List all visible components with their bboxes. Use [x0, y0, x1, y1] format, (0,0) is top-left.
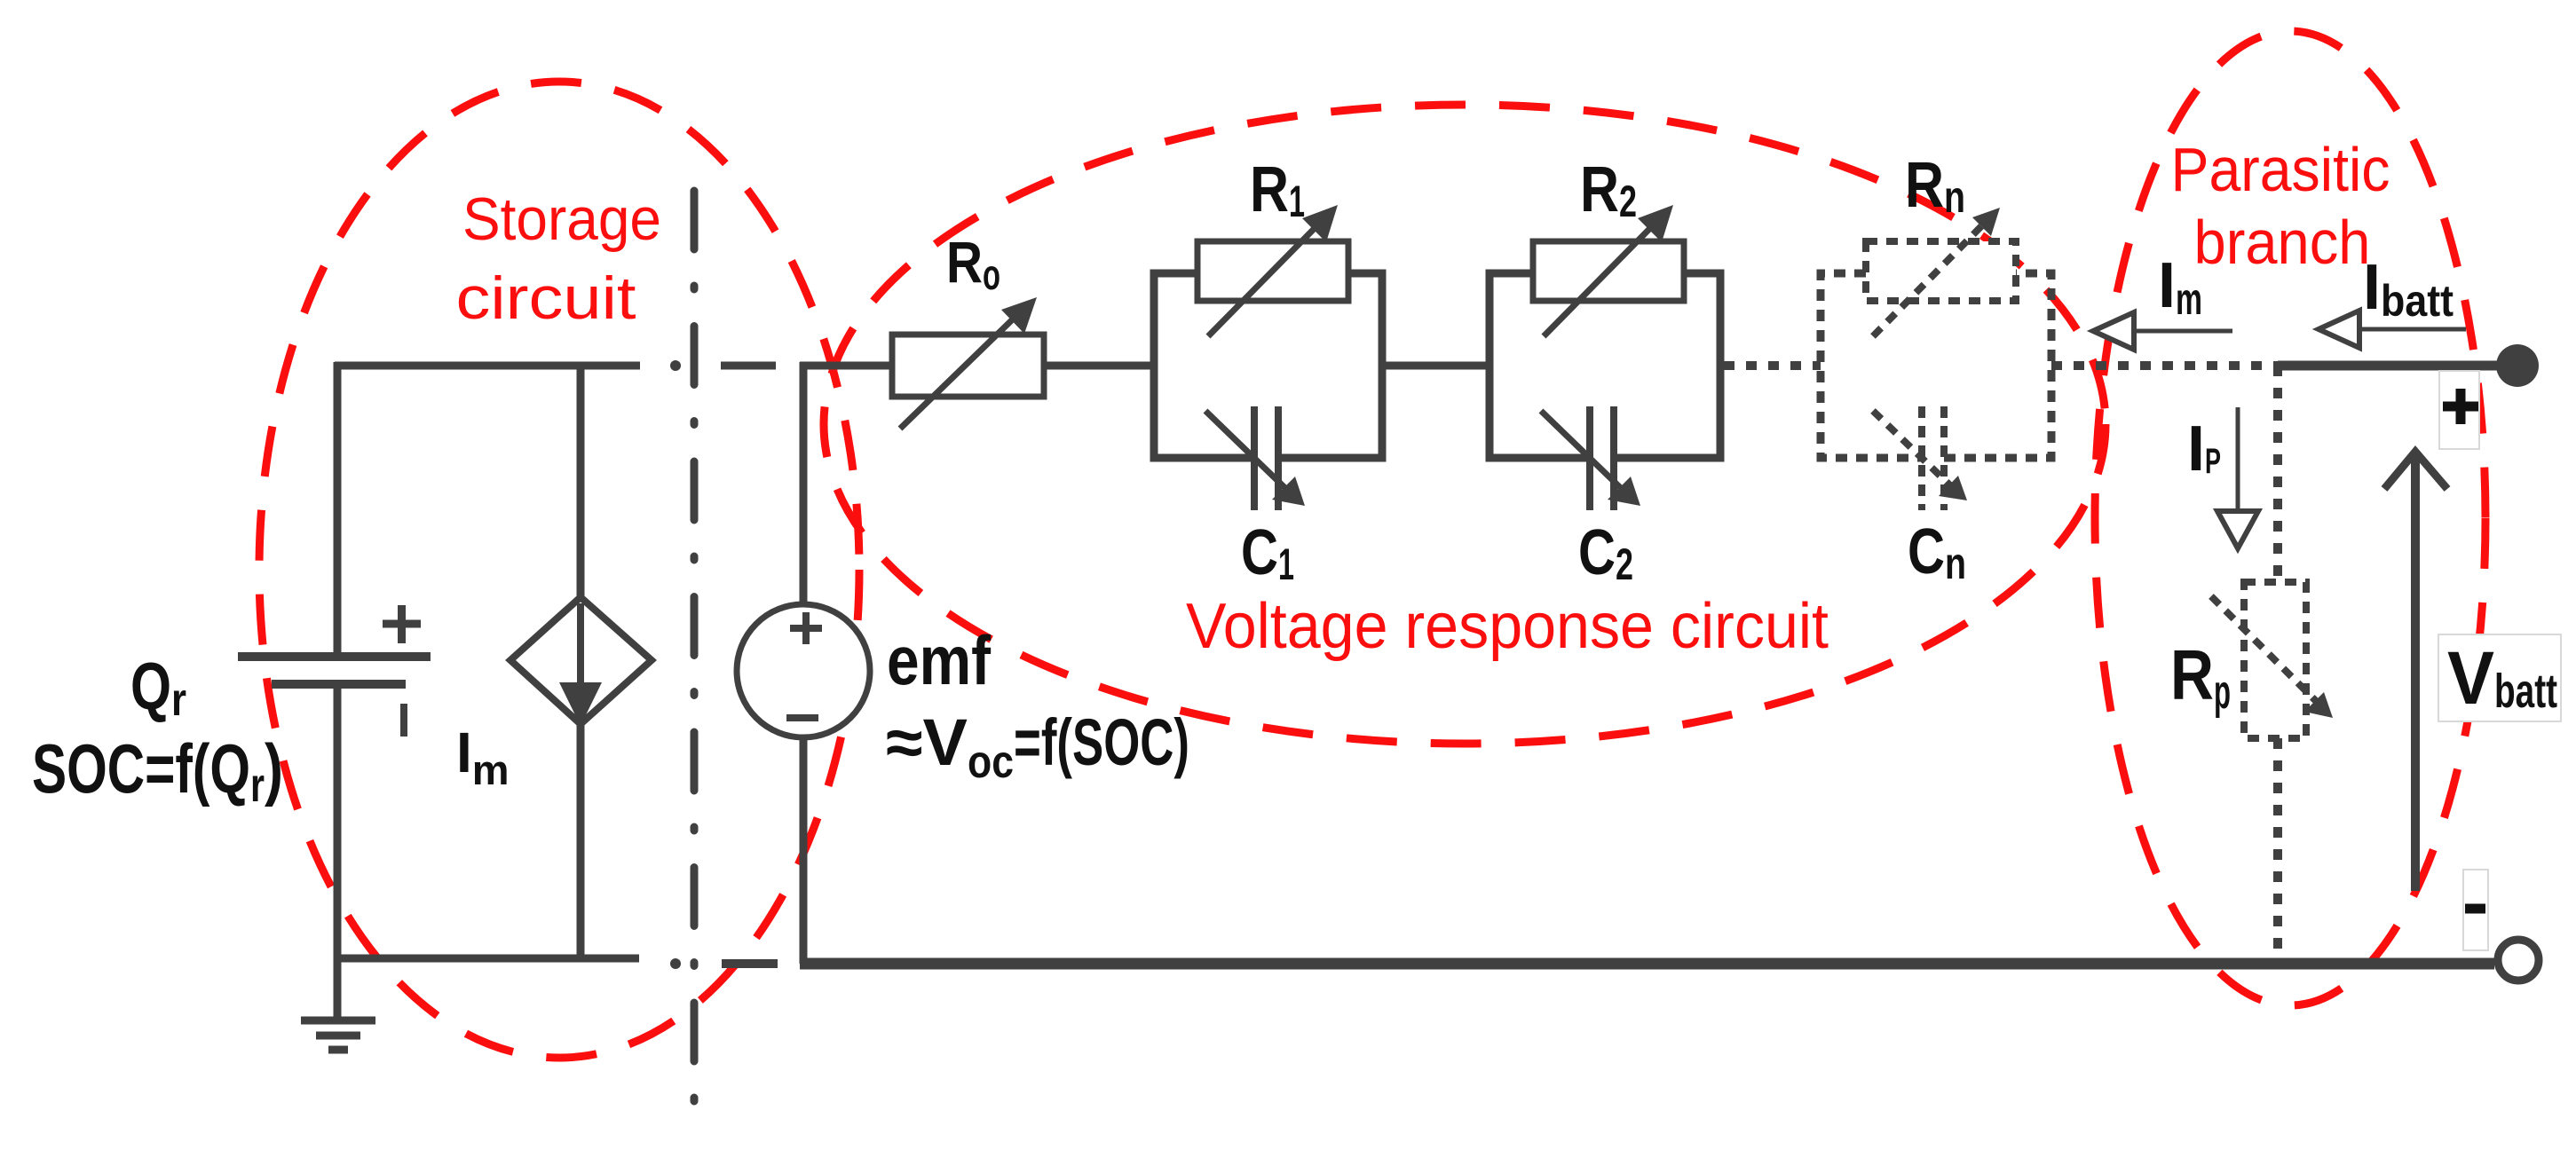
- annotation ellipse Storage circuit: [259, 82, 859, 1058]
- node positive terminal dot: [2496, 344, 2539, 387]
- current arrow Ibatt: [2319, 311, 2466, 348]
- label R2: [1580, 154, 1637, 226]
- capacitor C1 variable arrow: [1205, 411, 1305, 506]
- annotation ellipse Parasitic branch: [2095, 31, 2485, 1005]
- wire parasitic branch vertical upper dotted: [2273, 366, 2282, 582]
- capacitor Cn plates dashed: [1922, 406, 1944, 510]
- capacitor Qr top plate: [238, 652, 431, 661]
- capacitor C2 variable arrow: [1541, 411, 1640, 506]
- annotation box minus terminal: [2463, 870, 2488, 950]
- label Voltage response circuit: [1186, 591, 1829, 662]
- current arrow Ip: [2217, 407, 2258, 548]
- wire current source Im top: [577, 362, 585, 600]
- resistor Ro variable arrow: [900, 297, 1037, 429]
- label Ro: [946, 229, 1000, 299]
- node R1C1 loop: [1154, 273, 1382, 458]
- polarity minus tick of Qr: [400, 704, 407, 736]
- wire capacitor left branch lower: [334, 688, 342, 958]
- svg-text:branch: branch: [2194, 208, 2371, 277]
- resistor Rp body dashed: [2244, 582, 2306, 738]
- wire Ro to R1C1: [1044, 362, 1154, 370]
- voltage source emf circle: [737, 604, 870, 737]
- interface dash-dot boundary line: [691, 191, 699, 1109]
- resistor R1 variable arrow: [1208, 205, 1338, 336]
- wire parasitic branch vertical lower dotted: [2273, 738, 2282, 958]
- capacitor Qr bottom plate: [272, 680, 406, 689]
- wire interface bottom dash: [722, 959, 778, 968]
- svg-text:Voltage response circuit: Voltage response circuit: [1186, 591, 1829, 662]
- voltage arrow Vbatt: [2384, 452, 2447, 891]
- capacitor C2 plates: [1590, 406, 1614, 510]
- node RnCn loop dashed: [1821, 273, 2051, 458]
- wire main bottom rail: [800, 958, 2494, 970]
- annotation box plus terminal: [2439, 371, 2479, 449]
- polarity plus of Qr: [383, 605, 421, 643]
- wire capacitor left branch upper: [334, 362, 342, 653]
- label Ip: [2187, 414, 2221, 484]
- wire node junction to positive terminal: [2278, 361, 2498, 371]
- resistor R2 variable arrow: [1544, 205, 1673, 336]
- wire R1C1 to R2C2: [1382, 362, 1489, 370]
- label Storage circuit: [456, 185, 662, 332]
- current arrow Im parasitic: [2093, 312, 2232, 350]
- current source Im arrow: [559, 603, 602, 726]
- label Rn: [1905, 150, 1965, 222]
- label R1: [1250, 154, 1305, 226]
- label Parasitic branch: [2171, 135, 2390, 277]
- resistor Rp variable arrow dashed: [2211, 596, 2333, 718]
- polarity minus terminal: [2465, 904, 2485, 914]
- label SOC=f(Qr): [32, 729, 283, 812]
- wire storage bottom rail: [335, 955, 639, 963]
- annotation ellipse Voltage response circuit: [824, 105, 2106, 744]
- capacitor C1 plates: [1254, 406, 1278, 510]
- label C1: [1241, 517, 1294, 589]
- label Rp: [2170, 635, 2231, 719]
- wire interface top dot: [670, 360, 681, 371]
- svg-text:Parasitic: Parasitic: [2171, 135, 2390, 204]
- label Qr: [130, 649, 186, 726]
- current source Im diamond: [510, 597, 652, 724]
- wire interface top dash: [721, 362, 776, 370]
- capacitor Cn variable arrow dashed: [1873, 411, 1967, 500]
- label Cn: [1908, 516, 1966, 588]
- svg-text:≈Voc=f(SOC): ≈Voc=f(SOC): [886, 705, 1189, 788]
- node negative terminal circle: [2498, 940, 2539, 981]
- wire emf bottom lead: [800, 737, 808, 964]
- label Im storage: [456, 721, 510, 793]
- label emf: [887, 621, 992, 699]
- voltage source emf plus: [790, 612, 822, 644]
- label Vbatt: [2447, 636, 2557, 720]
- svg-text:Storage: Storage: [462, 185, 661, 253]
- wire current source Im bottom: [577, 721, 585, 958]
- wire emf top lead: [800, 362, 892, 604]
- wire interface bottom dot: [670, 958, 681, 969]
- resistor Rn variable arrow dashed: [1873, 208, 2000, 336]
- svg-text:emf: emf: [887, 621, 992, 699]
- label emf approx Voc: [886, 705, 1189, 788]
- resistor R1 body: [1197, 241, 1348, 301]
- resistor Rn body dashed: [1866, 241, 2016, 301]
- resistor Ro body: [892, 335, 1044, 397]
- label Ibatt: [2363, 252, 2454, 326]
- wire RnCn to node junction dotted: [2051, 361, 2278, 370]
- voltage source emf minus: [786, 714, 818, 721]
- resistor R2 body: [1533, 241, 1684, 301]
- wire storage top rail: [335, 362, 640, 370]
- ground: [301, 1020, 375, 1050]
- svg-text:circuit: circuit: [456, 264, 636, 332]
- label C2: [1578, 517, 1633, 589]
- wire R2C2 to RnCn dotted: [1724, 361, 1821, 370]
- label Im parasitic: [2158, 250, 2202, 324]
- annotation box Vbatt: [2438, 634, 2561, 721]
- polarity plus terminal: [2443, 389, 2478, 424]
- svg-text:SOC=f(Qr): SOC=f(Qr): [32, 729, 283, 812]
- node R2C2 loop: [1489, 273, 1720, 458]
- wire ground stem: [334, 958, 342, 1020]
